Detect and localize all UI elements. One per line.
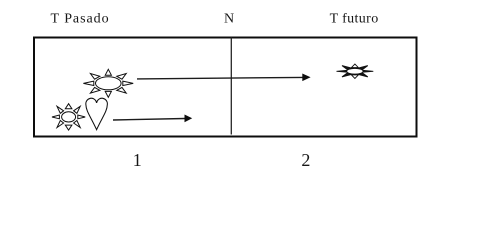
big sun E ray [123, 81, 133, 85]
svg-text:1: 1 [133, 150, 142, 170]
future sun N ray [351, 64, 358, 68]
big sun W ray [83, 81, 93, 85]
big sun body ellipse [96, 77, 122, 90]
big sun S ray [105, 91, 111, 97]
short arrow shaft [113, 119, 185, 121]
big sun NE ray [117, 74, 126, 80]
future sun W ray [337, 70, 347, 72]
future sun body ellipse [347, 68, 363, 74]
small sun E ray [78, 115, 85, 119]
small sun W ray [52, 115, 59, 119]
heart [86, 98, 108, 129]
future sun SE ray [358, 73, 368, 77]
small sun body ellipse [62, 112, 76, 122]
svg-text:2: 2 [301, 150, 310, 170]
big sun NW ray [90, 74, 99, 80]
small sun NW ray [57, 106, 64, 113]
future sun S ray [351, 75, 358, 79]
future sun SW ray [342, 73, 352, 77]
divider line at N [230, 38, 232, 135]
big sun SW ray [90, 87, 99, 93]
timeline box [34, 38, 417, 137]
svg-text:N: N [224, 12, 234, 27]
long arrow shaft [137, 77, 303, 79]
long arrow head [302, 74, 310, 82]
big sun N ray [105, 69, 111, 75]
small sun SW ray [57, 121, 64, 128]
future sun NW ray [342, 66, 352, 70]
big sun SE ray [117, 87, 126, 93]
small sun S ray [65, 125, 72, 130]
small sun N ray [65, 104, 72, 109]
svg-text:T Pasado: T Pasado [51, 12, 110, 27]
svg-text:T futuro: T futuro [330, 12, 379, 27]
future sun NE ray [358, 66, 368, 70]
small sun SE ray [74, 121, 81, 128]
future sun E ray [364, 70, 374, 72]
short arrow head [185, 115, 193, 123]
small sun NE ray [74, 106, 81, 113]
